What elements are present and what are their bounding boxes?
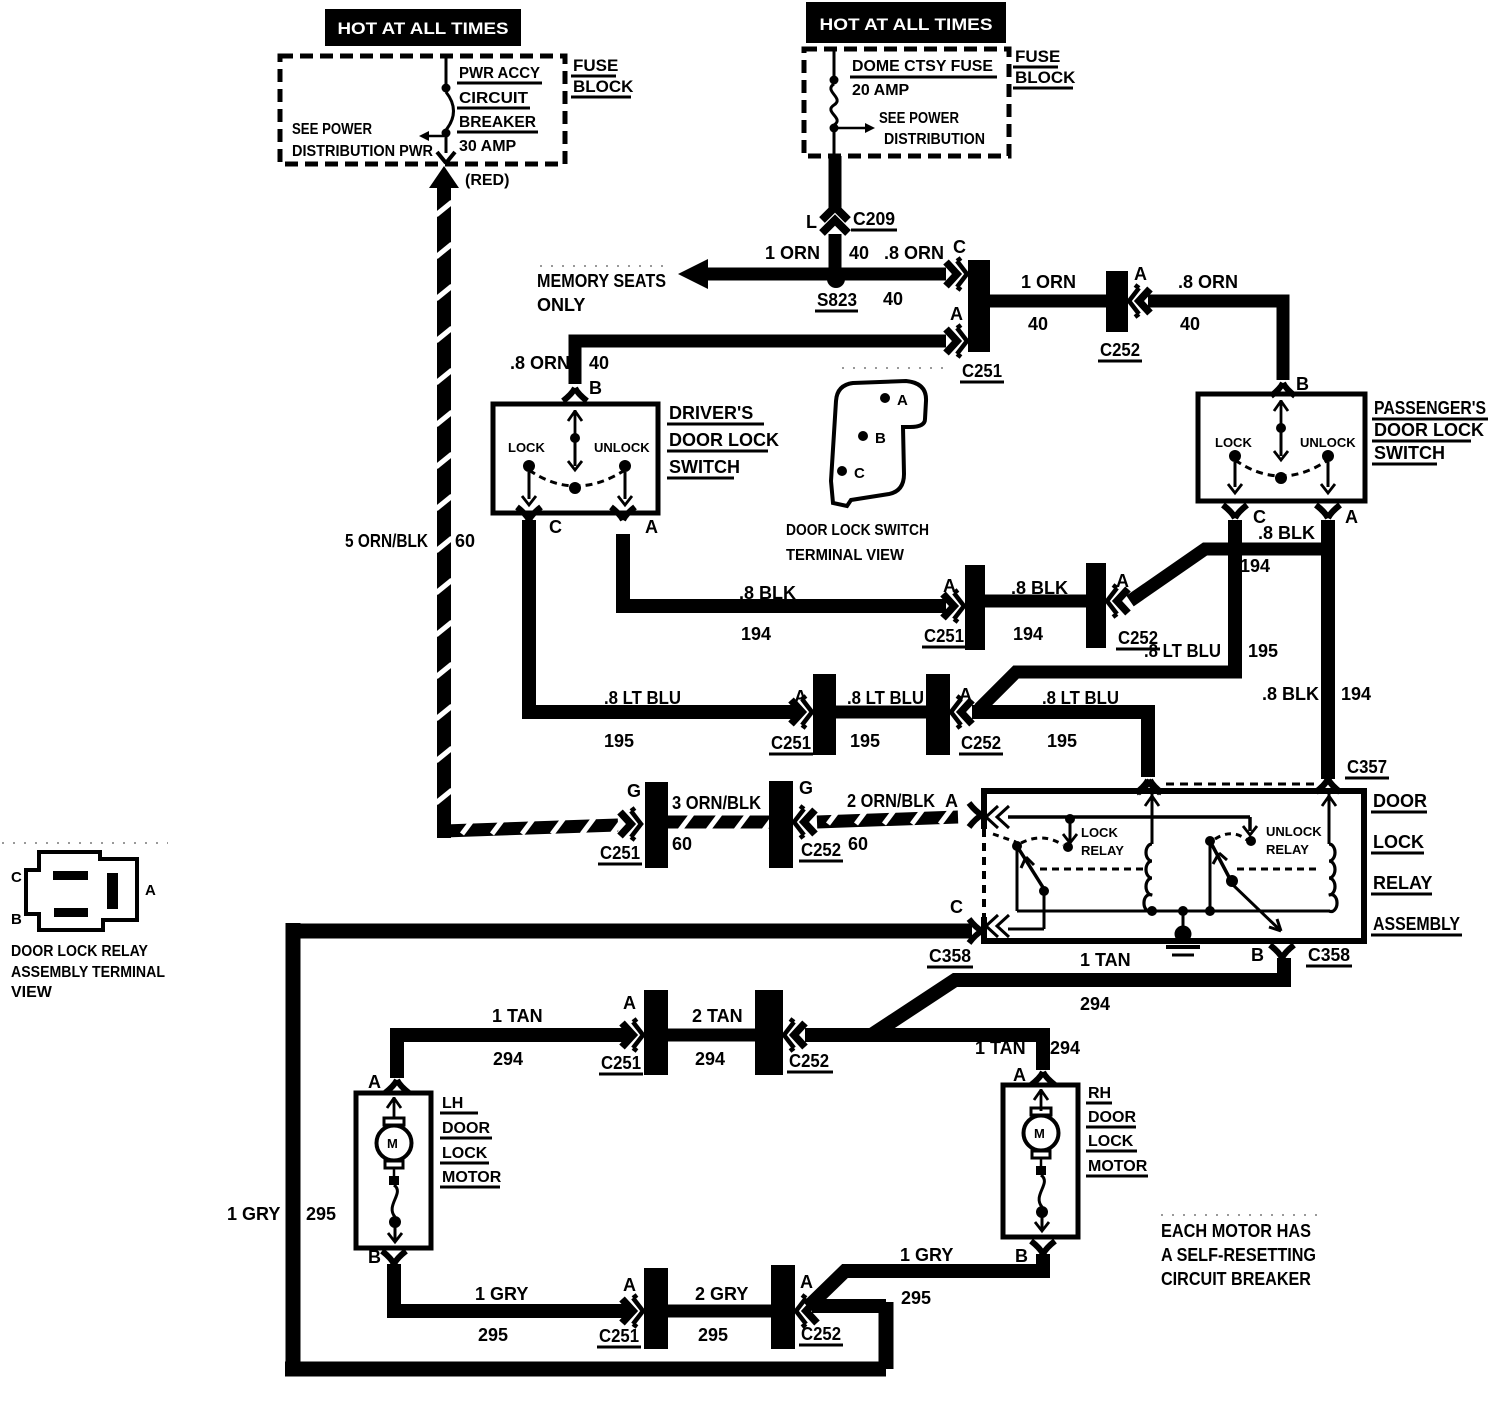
svg-text:A: A [800,1272,813,1292]
svg-text:.8 BLK: .8 BLK [1258,523,1315,543]
svg-text:MOTOR: MOTOR [1088,1158,1148,1175]
svg-text:295: 295 [306,1204,336,1224]
svg-text:C: C [950,897,963,917]
svg-text:LOCK: LOCK [1081,825,1118,840]
svg-text:.8 LT BLU: .8 LT BLU [1144,641,1221,661]
svg-text:2 ORN/BLK: 2 ORN/BLK [847,791,935,811]
svg-text:A: A [959,685,972,705]
svg-text:.8 LT BLU: .8 LT BLU [604,688,681,708]
svg-text:SWITCH: SWITCH [669,457,740,477]
svg-text:C: C [549,517,562,537]
svg-text:C: C [11,869,22,886]
svg-text:B: B [1251,945,1264,965]
svg-text:A: A [368,1072,381,1092]
svg-text:C251: C251 [601,1053,641,1073]
svg-text:C209: C209 [853,209,895,229]
svg-text:PWR ACCY: PWR ACCY [459,65,540,82]
svg-text:.8 ORN: .8 ORN [884,243,944,263]
svg-text:.8 BLK: .8 BLK [739,583,796,603]
svg-text:B: B [589,378,602,398]
svg-text:195: 195 [1248,641,1278,661]
svg-text:SEE POWER: SEE POWER [292,121,372,138]
svg-text:295: 295 [901,1288,931,1308]
svg-text:C252: C252 [801,1324,841,1344]
svg-text:C251: C251 [600,843,640,863]
svg-text:5 ORN/BLK: 5 ORN/BLK [345,531,428,551]
svg-text:RELAY: RELAY [1266,842,1309,857]
svg-text:C251: C251 [599,1326,639,1346]
svg-text:2 TAN: 2 TAN [692,1006,743,1026]
svg-text:194: 194 [1341,684,1371,704]
svg-text:ASSEMBLY TERMINAL: ASSEMBLY TERMINAL [11,964,165,981]
svg-text:LOCK: LOCK [508,440,545,455]
svg-text:40: 40 [589,353,609,373]
svg-text:FUSE: FUSE [1015,47,1060,66]
svg-text:294: 294 [493,1049,523,1069]
svg-text:MEMORY SEATS: MEMORY SEATS [537,271,666,291]
svg-text:DOOR LOCK RELAY: DOOR LOCK RELAY [11,943,148,960]
svg-text:DISTRIBUTION PWR: DISTRIBUTION PWR [292,143,433,160]
svg-text:B: B [875,430,886,447]
svg-text:C358: C358 [1308,945,1350,965]
svg-text:60: 60 [672,834,692,854]
svg-text:1 ORN: 1 ORN [765,243,820,263]
svg-text:LH: LH [442,1095,463,1112]
svg-text:DOOR LOCK: DOOR LOCK [669,430,779,450]
svg-text:A: A [1134,264,1147,284]
svg-text:1 TAN: 1 TAN [975,1038,1026,1058]
svg-text:C251: C251 [962,361,1002,381]
svg-text:40: 40 [1180,314,1200,334]
svg-text:TERMINAL VIEW: TERMINAL VIEW [786,547,905,564]
svg-text:M: M [1034,1126,1045,1141]
svg-text:295: 295 [478,1325,508,1345]
svg-text:A SELF-RESETTING: A SELF-RESETTING [1161,1245,1316,1265]
svg-text:C357: C357 [1347,757,1387,777]
svg-text:20 AMP: 20 AMP [852,82,910,99]
svg-text:.8 LT BLU: .8 LT BLU [1042,688,1119,708]
svg-text:60: 60 [455,531,475,551]
svg-text:A: A [1013,1065,1026,1085]
svg-text:A: A [145,882,156,899]
svg-text:S823: S823 [817,290,857,310]
svg-text:40: 40 [1028,314,1048,334]
svg-text:SWITCH: SWITCH [1374,443,1445,463]
svg-text:G: G [799,778,813,798]
svg-text:294: 294 [1080,994,1110,1014]
svg-text:294: 294 [1050,1038,1080,1058]
svg-text:UNLOCK: UNLOCK [594,440,650,455]
svg-text:FUSE: FUSE [573,56,618,75]
svg-text:B: B [1015,1246,1028,1266]
svg-text:C358: C358 [929,946,971,966]
svg-text:BLOCK: BLOCK [573,77,634,96]
svg-text:DRIVER'S: DRIVER'S [669,403,753,423]
svg-text:HOT AT ALL TIMES: HOT AT ALL TIMES [820,15,993,34]
svg-text:LOCK: LOCK [442,1145,488,1162]
svg-text:DOOR LOCK: DOOR LOCK [1374,420,1484,440]
svg-text:C251: C251 [924,626,964,646]
svg-text:ONLY: ONLY [537,295,585,315]
svg-text:195: 195 [850,731,880,751]
svg-text:294: 294 [695,1049,725,1069]
svg-text:195: 195 [604,731,634,751]
svg-text:30 AMP: 30 AMP [459,138,517,155]
svg-text:A: A [897,392,908,409]
svg-text:RELAY: RELAY [1081,843,1124,858]
svg-text:DOOR: DOOR [442,1120,490,1137]
svg-text:UNLOCK: UNLOCK [1266,824,1322,839]
svg-text:L: L [806,212,817,232]
svg-text:295: 295 [698,1325,728,1345]
svg-text:A: A [945,791,958,811]
svg-text:.8 BLK: .8 BLK [1011,578,1068,598]
svg-text:C252: C252 [961,733,1001,753]
svg-text:.8 ORN: .8 ORN [1178,272,1238,292]
svg-text:LOCK: LOCK [1088,1133,1134,1150]
svg-text:1 ORN: 1 ORN [1021,272,1076,292]
svg-text:UNLOCK: UNLOCK [1300,435,1356,450]
svg-text:1 GRY: 1 GRY [900,1245,953,1265]
svg-text:RELAY: RELAY [1373,873,1432,893]
svg-text:PASSENGER'S: PASSENGER'S [1374,398,1486,418]
svg-text:A: A [623,993,636,1013]
svg-text:2 GRY: 2 GRY [695,1284,748,1304]
svg-text:LOCK: LOCK [1373,832,1424,852]
svg-text:1 TAN: 1 TAN [1080,950,1131,970]
svg-text:DOOR: DOOR [1373,791,1427,811]
svg-text:G: G [627,781,641,801]
svg-text:C252: C252 [789,1051,829,1071]
svg-text:1 TAN: 1 TAN [492,1006,543,1026]
svg-text:40: 40 [883,289,903,309]
svg-text:1 GRY: 1 GRY [475,1284,528,1304]
svg-text:194: 194 [1240,556,1270,576]
svg-text:A: A [1345,507,1358,527]
svg-text:60: 60 [848,834,868,854]
svg-text:CIRCUIT: CIRCUIT [459,90,528,107]
svg-text:M: M [387,1136,398,1151]
svg-text:B: B [11,911,22,928]
svg-text:A: A [623,1275,636,1295]
svg-text:.8 ORN: .8 ORN [510,353,570,373]
svg-text:BREAKER: BREAKER [459,114,536,131]
svg-text:C251: C251 [771,733,811,753]
svg-text:DISTRIBUTION: DISTRIBUTION [884,131,985,148]
svg-text:DOME CTSY FUSE: DOME CTSY FUSE [852,58,993,75]
svg-text:B: B [1296,374,1309,394]
svg-text:EACH MOTOR HAS: EACH MOTOR HAS [1161,1221,1311,1241]
svg-text:194: 194 [741,624,771,644]
svg-text:194: 194 [1013,624,1043,644]
svg-text:RH: RH [1088,1085,1111,1102]
svg-text:C: C [953,237,966,257]
svg-text:(RED): (RED) [465,172,509,189]
svg-text:40: 40 [849,243,869,263]
svg-text:C252: C252 [801,840,841,860]
svg-text:1 GRY: 1 GRY [227,1204,280,1224]
svg-text:BLOCK: BLOCK [1015,68,1076,87]
svg-text:ASSEMBLY: ASSEMBLY [1373,914,1460,934]
svg-text:.8 LT BLU: .8 LT BLU [847,688,924,708]
svg-text:C: C [854,465,865,482]
svg-text:MOTOR: MOTOR [442,1169,502,1186]
svg-text:CIRCUIT BREAKER: CIRCUIT BREAKER [1161,1269,1311,1289]
svg-text:195: 195 [1047,731,1077,751]
svg-text:DOOR: DOOR [1088,1109,1136,1126]
svg-text:A: A [950,304,963,324]
svg-text:B: B [368,1247,381,1267]
svg-text:SEE POWER: SEE POWER [879,110,959,127]
svg-text:.8 BLK: .8 BLK [1262,684,1319,704]
svg-text:HOT AT ALL TIMES: HOT AT ALL TIMES [338,19,509,38]
svg-text:C252: C252 [1100,340,1140,360]
svg-text:A: A [1116,571,1129,591]
svg-text:3 ORN/BLK: 3 ORN/BLK [672,793,761,813]
svg-text:DOOR LOCK SWITCH: DOOR LOCK SWITCH [786,522,929,539]
svg-text:VIEW: VIEW [11,984,53,1001]
svg-text:LOCK: LOCK [1215,435,1252,450]
svg-text:A: A [645,517,658,537]
